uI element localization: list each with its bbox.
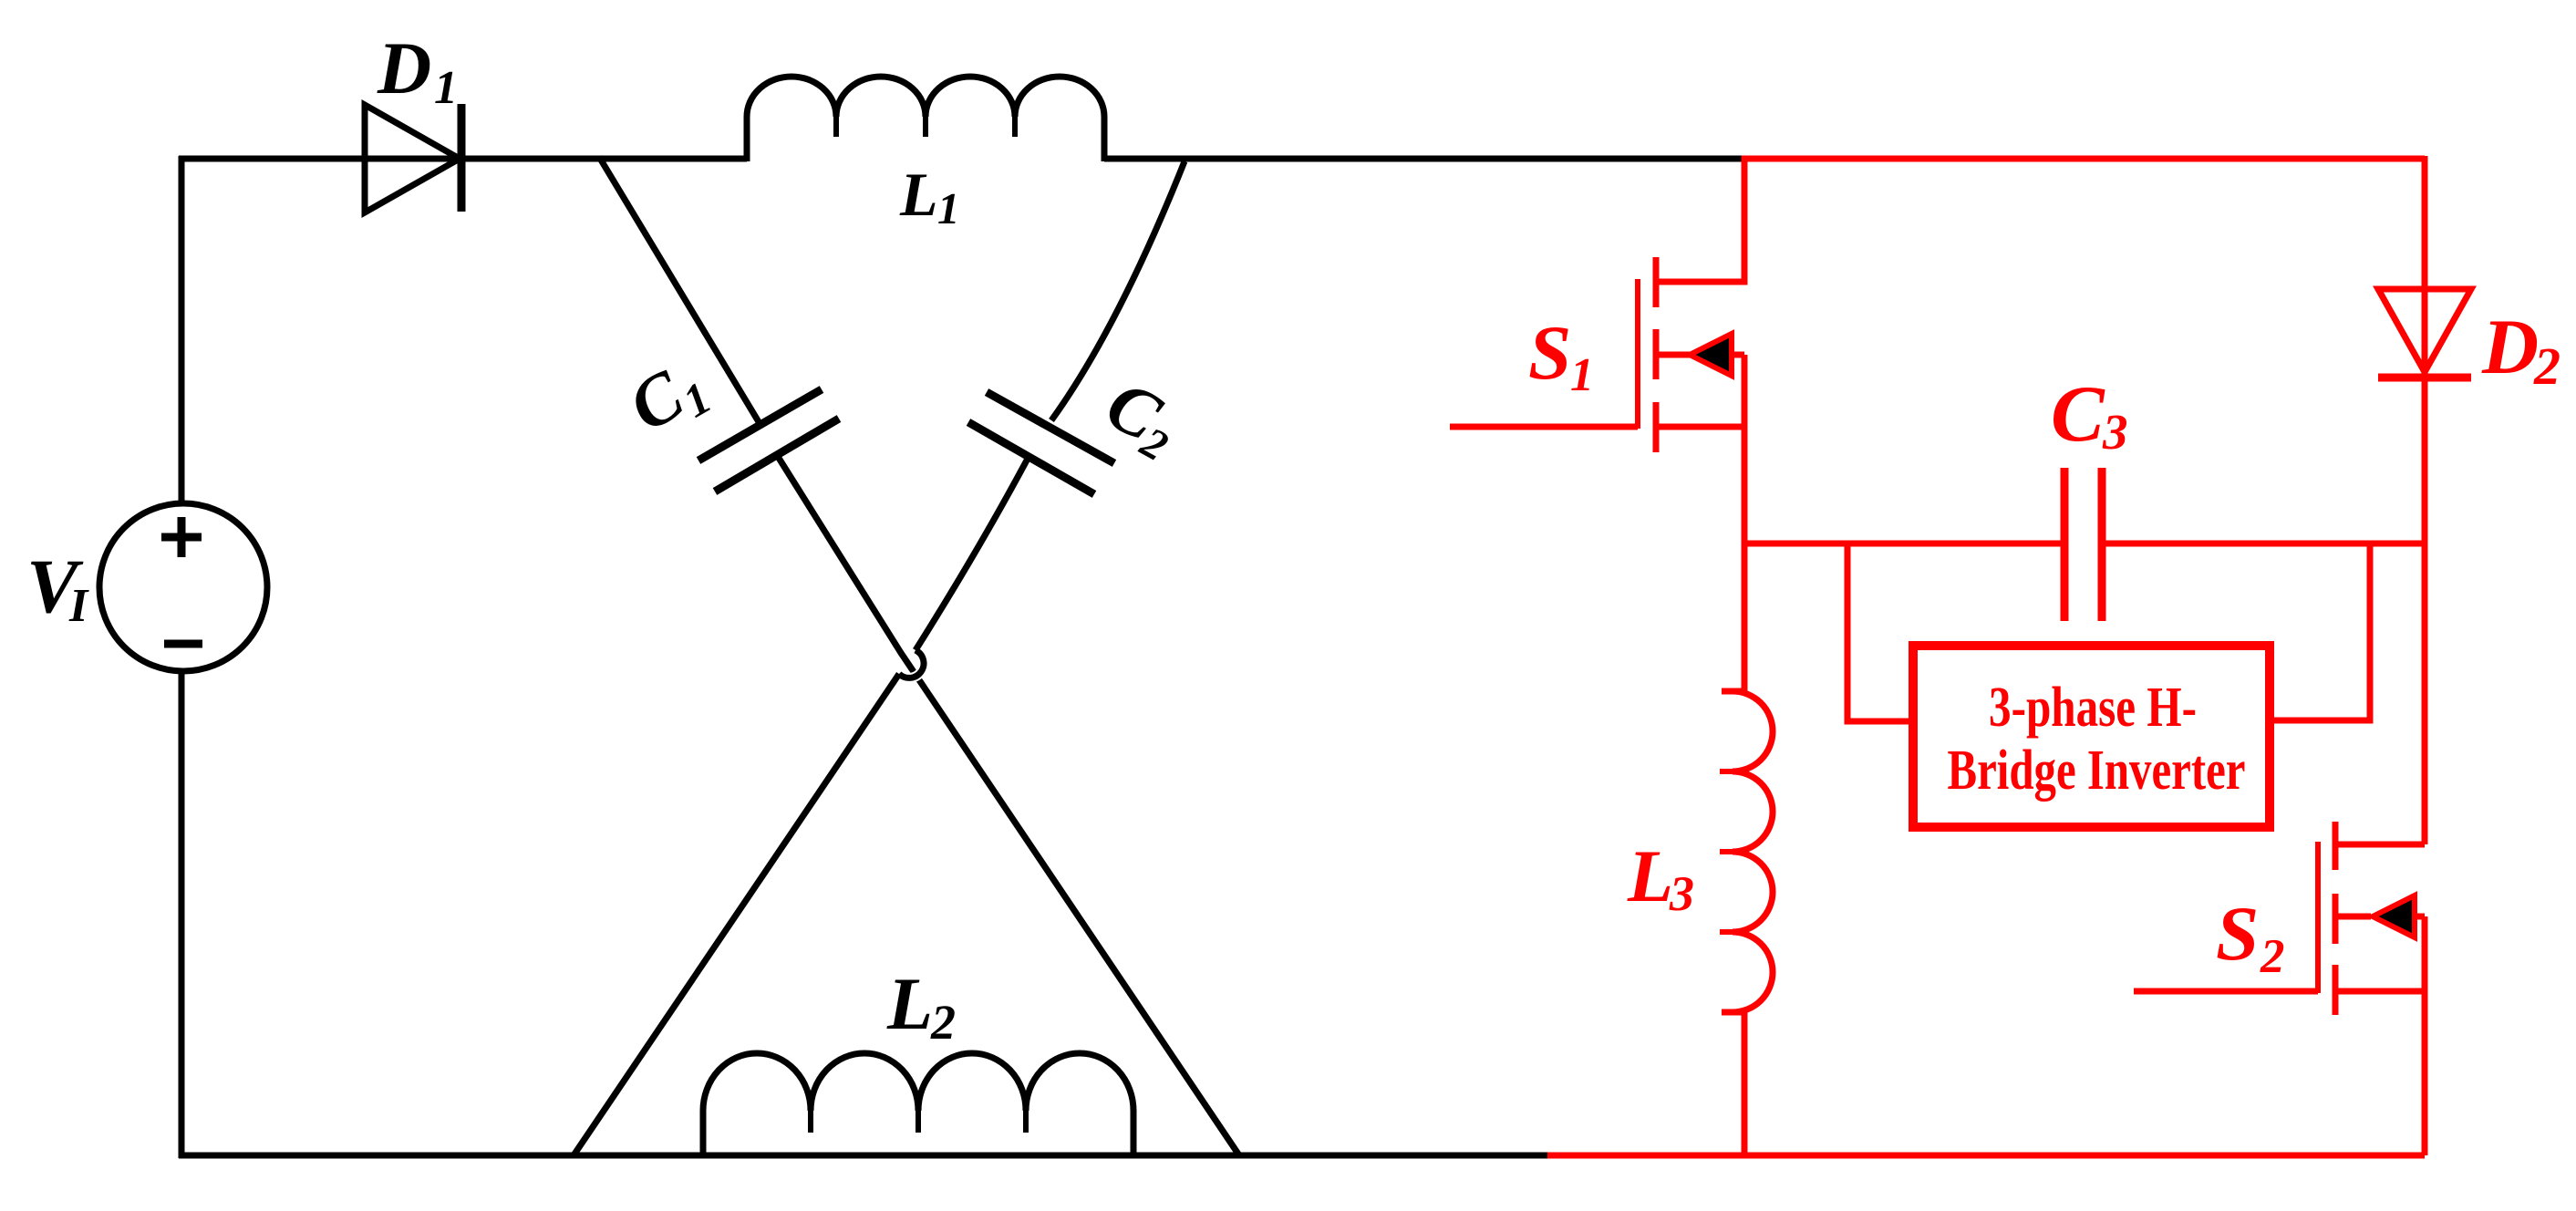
V1 plus sign — [161, 517, 202, 557]
MOSFET S1 body diode arrow — [1690, 334, 1732, 376]
capacitor C3 left plate — [2061, 468, 2069, 621]
MOSFET S2 gate lead — [2134, 988, 2318, 995]
label C2 (rotated with branch) — [1091, 364, 1193, 471]
svg-text:2: 2 — [2533, 336, 2560, 396]
wire: bottom horizontal black segment — [179, 1153, 1547, 1159]
wire: top horizontal red segment to right corner — [1742, 156, 2425, 162]
crossing hop arc — [899, 650, 924, 678]
svg-text:3: 3 — [2102, 404, 2128, 460]
wire: diagonal branch B middle (C2 down to crossing hop) — [916, 457, 1029, 650]
inductor L1 left step — [744, 117, 750, 161]
svg-text:Bridge Inverter: Bridge Inverter — [1948, 740, 2246, 802]
box: 3-phase H-Bridge Inverter — [1913, 646, 2270, 827]
capacitor C1 plate 2 — [715, 419, 839, 492]
svg-text:3-phase H-: 3-phase H- — [1989, 677, 2197, 739]
capacitor C2 plate 2 — [968, 422, 1094, 494]
MOSFET S2 body diode arrow — [2373, 895, 2415, 937]
MOSFET S2 channel dashes — [2333, 822, 2339, 1015]
label C1 (rotated with branch) — [616, 342, 719, 451]
diode D1 triangle — [365, 105, 460, 212]
wire: L3 bottom vertical to bottom wire — [1742, 1012, 1748, 1155]
inductor L3 junction cusps — [1720, 771, 1734, 932]
svg-text:L: L — [1627, 834, 1673, 917]
svg-text:D: D — [2481, 303, 2539, 390]
inductor L3 top stub — [1722, 688, 1744, 695]
diode D2 triangle — [2378, 289, 2471, 372]
svg-text:C: C — [2051, 370, 2105, 459]
svg-text:S: S — [2216, 891, 2259, 977]
capacitor C3 right plate — [2098, 468, 2106, 621]
inductor L2 left step — [700, 1111, 707, 1155]
wire: diagonal branch A upper (top wire to capacitor C1) — [599, 157, 760, 425]
diode D2 cathode bar — [2378, 374, 2471, 382]
svg-text:1: 1 — [937, 183, 960, 233]
MOSFET S2 drain wire — [2335, 842, 2425, 848]
MOSFET S2 gate bar — [2315, 842, 2321, 993]
inductor L1 junction cusps — [836, 115, 1015, 137]
svg-text:3: 3 — [1669, 866, 1694, 921]
inductor L1 right step — [1102, 117, 1108, 161]
wire: bottom horizontal red segment — [1547, 1153, 2425, 1159]
inductor L1 arcs — [747, 77, 1104, 117]
MOSFET S2 body line — [2335, 916, 2425, 994]
svg-text:2: 2 — [930, 995, 956, 1050]
inductor L3 arcs — [1733, 691, 1773, 1012]
wire: top horizontal from left corner to L1 (passes through D1) — [179, 156, 747, 162]
inductor L2 junction cusps — [811, 1109, 1026, 1133]
MOSFET S1 gate bar — [1635, 279, 1640, 429]
svg-text:I: I — [68, 580, 89, 632]
wire: right vertical (through D2 down to S2 drain) — [2422, 156, 2428, 844]
capacitor C2 plate 1 — [987, 392, 1114, 463]
wire: diagonal branch B lower (crossing to bottom wire) — [574, 674, 899, 1155]
svg-text:L: L — [899, 160, 938, 229]
diode D1 cathode bar — [458, 104, 466, 212]
wire: diagonal branch A lower (C1 through crossing to bottom wire) — [777, 455, 1239, 1155]
MOSFET S2 source wire — [2335, 991, 2425, 1155]
svg-text:1: 1 — [434, 62, 458, 114]
crossing hop white casing — [899, 650, 924, 678]
wire: inverter left branch — [1847, 541, 1913, 721]
MOSFET S1 body line — [1656, 352, 1744, 358]
V1 minus sign — [164, 640, 202, 648]
inductor L3 bottom stub — [1722, 1009, 1744, 1016]
wire: top horizontal from L1 to S1 drain node — [1104, 156, 1742, 162]
MOSFET S1 channel dashes — [1653, 257, 1660, 452]
wire: left vertical from V1 down to bottom-left corner — [179, 670, 185, 1158]
wire: diagonal branch B upper (top wire to capacitor C2, slight curve) — [1051, 161, 1185, 420]
source V1 circle — [99, 503, 267, 671]
wire: mid horizontal red right of C3 — [2102, 541, 2425, 547]
svg-text:1: 1 — [1570, 349, 1594, 401]
wire: inverter right branch — [2270, 541, 2370, 720]
inductor L2 right step — [1131, 1111, 1137, 1155]
inductor L2 arcs — [703, 1053, 1133, 1111]
capacitor C1 plate 1 — [698, 389, 822, 461]
MOSFET S1 gate lead — [1450, 424, 1638, 430]
MOSFET S1 source wire — [1656, 355, 1744, 691]
svg-text:D: D — [377, 26, 431, 109]
wire: mid horizontal red left of C3 — [1744, 541, 2064, 547]
MOSFET S1 drain wire — [1656, 156, 1744, 282]
svg-text:L: L — [886, 962, 933, 1045]
svg-text:S: S — [1528, 310, 1571, 396]
svg-text:2: 2 — [2260, 930, 2285, 983]
wire: left vertical from top-left corner down to source V1 — [179, 156, 185, 503]
